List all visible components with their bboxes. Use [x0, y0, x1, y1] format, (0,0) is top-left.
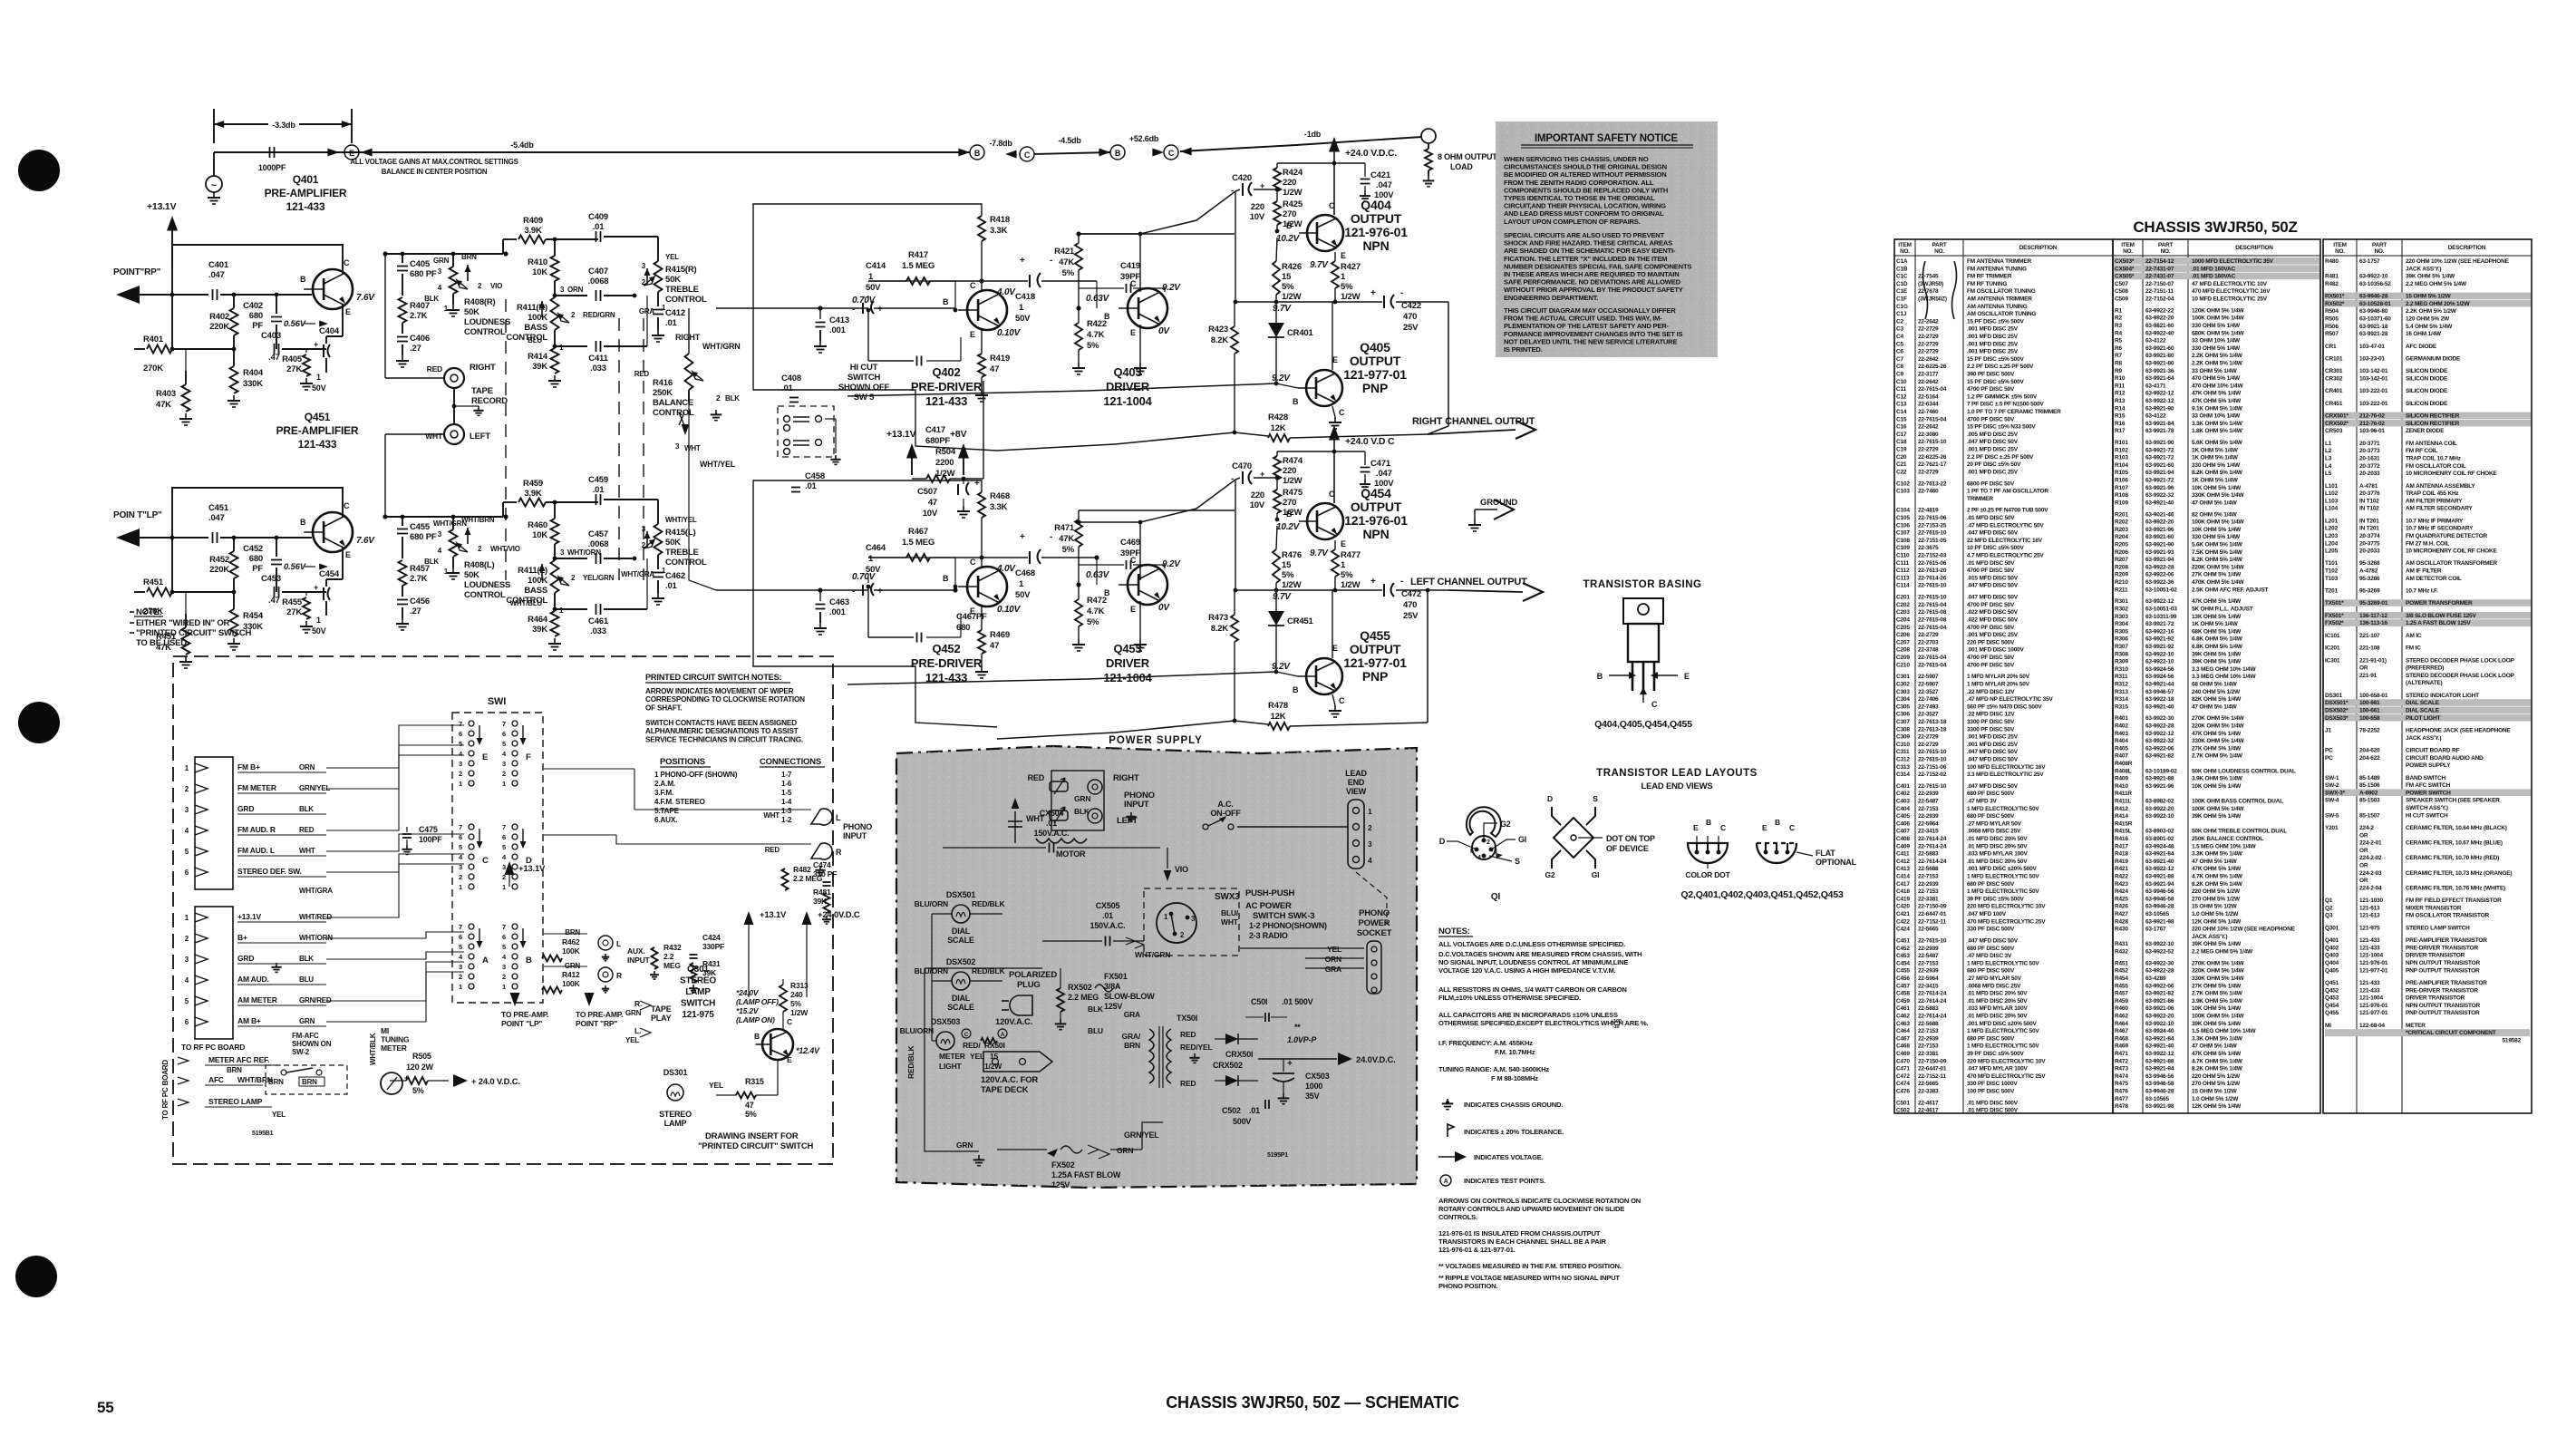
svg-text:C462: C462: [665, 571, 685, 581]
svg-text:Y201: Y201: [2325, 825, 2339, 831]
svg-text:C507: C507: [917, 487, 937, 497]
svg-text:8.2K OHM 5% 1/4W: 8.2K OHM 5% 1/4W: [2192, 557, 2243, 563]
svg-text:680 PF DISC 500V: 680 PF DISC 500V: [1967, 881, 2015, 888]
semicircle flat optional pkg: [1757, 843, 1796, 863]
svg-text:63-9921-94: 63-9921-94: [2145, 1066, 2174, 1072]
svg-text:63-9821-60: 63-9821-60: [2145, 323, 2174, 329]
svg-text:NOTE:: NOTE:: [136, 607, 162, 617]
svg-text:E: E: [345, 307, 351, 316]
svg-text:.01 MFD DISC 20% 50V: .01 MFD DISC 20% 50V: [1967, 1013, 2028, 1019]
svg-text:125V: 125V: [1104, 1002, 1122, 1011]
svg-text:1: 1: [502, 983, 506, 991]
svg-text:PART: PART: [2372, 242, 2387, 248]
svg-text:63-9922-06: 63-9922-06: [2145, 745, 2174, 752]
svg-text:Q405: Q405: [2325, 967, 2339, 974]
svg-text:.047: .047: [208, 513, 225, 523]
svg-text:1-5: 1-5: [781, 789, 792, 797]
svg-text:33 OHM 5% 1/4W: 33 OHM 5% 1/4W: [2192, 368, 2238, 374]
diode CR451: [1275, 590, 1277, 611]
svg-text:63-9921-44: 63-9921-44: [2145, 681, 2174, 687]
svg-text:R408R: R408R: [2115, 761, 2133, 767]
capacitor C4x2 680PF: [271, 559, 282, 561]
svg-text:R430: R430: [2115, 927, 2128, 933]
svg-text:R427: R427: [1341, 262, 1361, 272]
tape heads: [1050, 781, 1068, 791]
svg-text:FLAT: FLAT: [1816, 849, 1835, 858]
svg-text:22-2642: 22-2642: [1918, 424, 1939, 431]
svg-text:.47 MFD NP ELECTROLYTIC 35V: .47 MFD NP ELECTROLYTIC 35V: [1967, 696, 2054, 703]
svg-text:FX502: FX502: [1051, 1160, 1075, 1169]
svg-text:63-9922-10: 63-9922-10: [2145, 659, 2174, 665]
svg-text:ALL RESISTORS IN OHMS, 1/4 WAT: ALL RESISTORS IN OHMS, 1/4 WATT CARBON O…: [1438, 985, 1627, 994]
transistor Q405 PNP output: [1306, 370, 1342, 406]
svg-text:STEREO DECODER PHASE LOCK LOOP: STEREO DECODER PHASE LOCK LOOP: [2406, 657, 2515, 664]
svg-text:C8: C8: [1896, 364, 1903, 370]
svg-text:1.0VP-P: 1.0VP-P: [1287, 1035, 1317, 1044]
svg-text:4: 4: [1368, 856, 1372, 865]
svg-text:-3.3db: -3.3db: [272, 121, 295, 130]
svg-text:.0068: .0068: [588, 277, 609, 286]
svg-text:C15: C15: [1896, 416, 1907, 422]
svg-text:IC201: IC201: [2325, 645, 2340, 652]
svg-text:47K OHM 5% 1/4W: 47K OHM 5% 1/4W: [2192, 866, 2242, 872]
svg-text:63-9922-28: 63-9922-28: [2145, 968, 2174, 975]
svg-text:7: 7: [459, 923, 462, 931]
svg-text:4700 PF DISC 50V: 4700 PF DISC 50V: [1967, 602, 2015, 608]
svg-text:7 PF DISC ±.5 PF N1500 500V: 7 PF DISC ±.5 PF N1500 500V: [1967, 402, 2044, 408]
wire: PNP base feed: [847, 672, 1276, 684]
svg-text:R471: R471: [1054, 523, 1075, 533]
svg-text:.01: .01: [593, 222, 605, 232]
resistor R460 10K: [554, 502, 556, 519]
svg-text:C405: C405: [1896, 813, 1910, 820]
svg-text:JACK ASS'Y.): JACK ASS'Y.): [2406, 266, 2441, 272]
svg-text:220 PF DISC 500V: 220 PF DISC 500V: [1967, 639, 2015, 645]
svg-text:120K OHM 5% 1/4W: 120K OHM 5% 1/4W: [2192, 307, 2245, 314]
svg-text:22-7613-18: 22-7613-18: [1918, 726, 1947, 733]
transistor Q452 pre-driver: [967, 567, 1007, 607]
svg-text:Q404: Q404: [2325, 960, 2339, 966]
svg-text:-: -: [852, 305, 855, 315]
diamond package: [1554, 818, 1593, 858]
svg-text:100K OHM 5% 1/4W: 100K OHM 5% 1/4W: [2192, 806, 2245, 812]
svg-text:DESCRIPTION: DESCRIPTION: [2019, 245, 2058, 251]
svg-text:GI: GI: [1592, 870, 1600, 879]
svg-text:R4: R4: [2115, 330, 2122, 336]
svg-text:L: L: [616, 939, 621, 948]
svg-text:121-433: 121-433: [286, 200, 325, 213]
svg-text:COLOR DOT: COLOR DOT: [1685, 870, 1730, 879]
svg-text:63-9921-82: 63-9921-82: [2145, 753, 2174, 760]
svg-text:63-9921-18: 63-9921-18: [2359, 324, 2388, 330]
svg-text:TO RF PC BOARD: TO RF PC BOARD: [181, 1043, 245, 1052]
svg-text:22-3381: 22-3381: [1918, 896, 1939, 902]
svg-text:22-7153: 22-7153: [1918, 888, 1939, 895]
svg-text:SW-2: SW-2: [2325, 782, 2339, 789]
svg-text:95-3269: 95-3269: [2359, 588, 2380, 595]
svg-text:63-8982-02: 63-8982-02: [2145, 799, 2174, 805]
svg-text:.47 MFD DISC 3V: .47 MFD DISC 3V: [1967, 953, 2012, 959]
svg-text:680PF: 680PF: [925, 436, 950, 446]
wire: left rail down: [1235, 480, 1236, 590]
svg-text:C106: C106: [1896, 522, 1910, 529]
svg-text:INDICATES TEST POINTS.: INDICATES TEST POINTS.: [1464, 1177, 1545, 1185]
svg-text:5%: 5%: [1062, 545, 1075, 555]
svg-text:DSX501*: DSX501*: [2325, 700, 2348, 706]
svg-text:R476: R476: [1282, 550, 1302, 560]
svg-text:.0068 MFD DISC 25V: .0068 MFD DISC 25V: [1967, 983, 2021, 989]
svg-text:5%: 5%: [1282, 282, 1294, 292]
svg-text:12K OHM 5% 1/4W: 12K OHM 5% 1/4W: [2192, 1103, 2242, 1110]
svg-text:R305: R305: [2115, 628, 2128, 635]
svg-text:7: 7: [459, 720, 462, 728]
svg-text:1 MFD ELECTROLYTIC 50V: 1 MFD ELECTROLYTIC 50V: [1967, 1043, 2039, 1050]
svg-text:YEL/GRN: YEL/GRN: [583, 574, 615, 582]
gang dashed lines: [505, 299, 507, 580]
svg-text:B: B: [526, 956, 532, 966]
svg-text:103-96-01: 103-96-01: [2359, 428, 2385, 434]
svg-text:GRD: GRD: [237, 954, 254, 963]
capacitor C456 .27: [397, 599, 408, 601]
bottom wires: [925, 967, 1042, 969]
svg-text:C111: C111: [1896, 560, 1910, 567]
svg-text:22-7613-18: 22-7613-18: [1918, 719, 1947, 725]
svg-text:PF: PF: [252, 564, 263, 574]
svg-text:BRN: BRN: [565, 928, 580, 937]
svg-text:22-7615-04: 22-7615-04: [1918, 625, 1947, 631]
svg-text:BRN: BRN: [227, 1066, 242, 1074]
svg-text:B: B: [1293, 397, 1299, 406]
svg-text:4.7K OHM 5% 1/4W: 4.7K OHM 5% 1/4W: [2192, 874, 2243, 880]
svg-text:BLU: BLU: [528, 336, 542, 345]
svg-text:R421: R421: [2115, 866, 2128, 872]
svg-text:FM RF TRIMMER: FM RF TRIMMER: [1967, 274, 2012, 280]
svg-text:63-9921-64: 63-9921-64: [2145, 375, 2174, 382]
svg-text:63-10565: 63-10565: [2145, 1096, 2169, 1102]
svg-text:SWITCH: SWITCH: [681, 999, 715, 1009]
svg-text:C475: C475: [419, 825, 438, 834]
svg-text:4.0V: 4.0V: [996, 287, 1016, 297]
svg-text:C306: C306: [1896, 712, 1910, 718]
svg-text:IN T102: IN T102: [2359, 506, 2379, 512]
svg-text:63-9921-88: 63-9921-88: [2145, 776, 2174, 782]
svg-text:C207: C207: [1896, 639, 1910, 645]
svg-text:470 MFD ELECTROLYTIC 25V: 470 MFD ELECTROLYTIC 25V: [1967, 1073, 2046, 1080]
svg-text:R422: R422: [1087, 319, 1107, 329]
svg-text:MEG: MEG: [663, 961, 681, 970]
svg-text:R505: R505: [412, 1052, 431, 1061]
svg-text:PNP: PNP: [1362, 381, 1388, 395]
wire: collector to R418: [981, 281, 983, 291]
svg-text:7: 7: [502, 720, 506, 728]
svg-text:.033 MFD MYLAR 100V: .033 MFD MYLAR 100V: [1967, 851, 2029, 858]
svg-text:63-9921-60: 63-9921-60: [2145, 345, 2174, 352]
svg-text:R11: R11: [2115, 383, 2126, 389]
svg-text:L4: L4: [2325, 463, 2332, 470]
wire: tone top bus: [385, 516, 503, 518]
svg-text:RIGHT: RIGHT: [1113, 773, 1139, 783]
svg-text:(PREFERRED): (PREFERRED): [2406, 665, 2444, 672]
svg-text:27K: 27K: [286, 364, 302, 374]
svg-text:C457: C457: [588, 529, 608, 539]
svg-text:3.3K: 3.3K: [990, 226, 1008, 236]
svg-text:POWER TRANSFORMER: POWER TRANSFORMER: [2406, 600, 2473, 607]
24.0VDC out arrow: [1258, 1058, 1337, 1060]
svg-text:Q1: Q1: [2325, 898, 2333, 904]
svg-text:2-3 RADIO: 2-3 RADIO: [1249, 931, 1288, 940]
svg-text:POINT "LP": POINT "LP": [501, 1019, 542, 1028]
svg-text:C202: C202: [1896, 602, 1910, 608]
svg-text:DESCRIPTION: DESCRIPTION: [2235, 245, 2273, 251]
svg-text:TO RF PC BOARD: TO RF PC BOARD: [161, 1060, 169, 1120]
svg-text:.01: .01: [1046, 819, 1057, 828]
svg-text:C463: C463: [1896, 1021, 1910, 1027]
svg-text:-: -: [1050, 256, 1052, 266]
svg-text:C401: C401: [208, 260, 229, 270]
svg-text:DRIVER TRANSISTOR: DRIVER TRANSISTOR: [2406, 953, 2465, 959]
svg-text:20-3773: 20-3773: [2359, 448, 2380, 454]
resistor R4x5 27K: [305, 349, 307, 353]
svg-text:R17: R17: [2115, 428, 2126, 434]
svg-text:AC POWER: AC POWER: [1245, 901, 1292, 911]
capacitor C413 .001: [716, 307, 868, 309]
svg-text:TX50I: TX50I: [1177, 1014, 1197, 1023]
svg-text:INPUT: INPUT: [843, 831, 867, 840]
svg-text:C455: C455: [410, 522, 431, 532]
svg-text:1 MFD ELECTROLYTIC 50V: 1 MFD ELECTROLYTIC 50V: [1967, 888, 2039, 895]
svg-text:15: 15: [1282, 272, 1292, 282]
svg-text:22-6447-01: 22-6447-01: [1918, 1066, 1947, 1072]
svg-text:NO.: NO.: [2375, 248, 2385, 255]
svg-text:.01 MFD DISC 500V: .01 MFD DISC 500V: [1967, 1100, 2019, 1106]
svg-text:CR101: CR101: [2325, 355, 2343, 362]
svg-text:ARROWS ON CONTROLS INDICATE CL: ARROWS ON CONTROLS INDICATE CLOCKWISE RO…: [1438, 1197, 1641, 1205]
svg-text:MIXER TRANSISTOR: MIXER TRANSISTOR: [2406, 905, 2462, 911]
svg-text:7: 7: [459, 823, 462, 831]
svg-text:RED: RED: [765, 846, 780, 854]
svg-text:1/2W: 1/2W: [984, 1062, 1002, 1071]
svg-text:22-4819: 22-4819: [1918, 508, 1939, 514]
svg-text:39PF: 39PF: [1120, 272, 1140, 282]
svg-text:TUNING RANGE: A.M. 540-1600KH: TUNING RANGE: A.M. 540-1600KHz: [1438, 1065, 1549, 1073]
svg-text:"PRINTED CIRCUIT" SWITCH: "PRINTED CIRCUIT" SWITCH: [136, 628, 252, 638]
svg-text:GI: GI: [1518, 835, 1526, 844]
svg-text:WHT: WHT: [299, 847, 315, 855]
svg-text:BLK: BLK: [424, 295, 439, 303]
svg-text:R9: R9: [2115, 368, 2122, 374]
svg-text:CHASSIS 3WJR50, 50Z: CHASSIS 3WJR50, 50Z: [2133, 218, 2297, 236]
svg-text:C470: C470: [1232, 461, 1252, 471]
svg-text:136-117-12: 136-117-12: [2359, 613, 2387, 619]
svg-text:R506: R506: [2325, 324, 2339, 330]
svg-text:22-7153: 22-7153: [1918, 806, 1939, 812]
svg-text:3: 3: [459, 760, 462, 768]
svg-text:85-1503: 85-1503: [2359, 798, 2380, 804]
svg-text:.01 MFD 160VAC: .01 MFD 160VAC: [2192, 274, 2236, 280]
svg-text:8.2K OHM 5% 1/4W: 8.2K OHM 5% 1/4W: [2192, 1066, 2243, 1072]
svg-text:.27: .27: [410, 344, 421, 354]
svg-text:22-7152-03: 22-7152-03: [1918, 553, 1947, 559]
svg-text:ARROW INDICATES MOVEMENT OF WI: ARROW INDICATES MOVEMENT OF WIPER: [645, 687, 794, 695]
svg-text:204-622: 204-622: [2359, 755, 2380, 762]
svg-text:22-7150-07: 22-7150-07: [2145, 281, 2174, 287]
svg-text:10.7 MHz IF PRIMARY: 10.7 MHz IF PRIMARY: [2406, 518, 2464, 524]
svg-text:HI CUT: HI CUT: [850, 363, 878, 373]
svg-text:C105: C105: [1896, 515, 1910, 521]
svg-text:.022 MFD DISC 50V: .022 MFD DISC 50V: [1967, 609, 2019, 616]
svg-text:85-1489: 85-1489: [2359, 775, 2380, 781]
svg-text:OR: OR: [2359, 665, 2368, 672]
svg-text:PRE-DRIVER: PRE-DRIVER: [911, 380, 983, 393]
balance control R416 250K: [688, 308, 690, 326]
transistor Q454 NPN output: [1307, 503, 1343, 539]
svg-text:C454: C454: [319, 569, 340, 579]
svg-text:BLU/ORN: BLU/ORN: [900, 1026, 934, 1035]
svg-text:L201: L201: [2325, 518, 2339, 524]
svg-text:33 OHM 10% 1/4W: 33 OHM 10% 1/4W: [2192, 338, 2241, 345]
svg-text:4.7K OHM 5% 1/4W: 4.7K OHM 5% 1/4W: [2192, 1058, 2243, 1064]
svg-text:R401: R401: [143, 335, 164, 345]
svg-text:PRE-AMPLIFIER: PRE-AMPLIFIER: [265, 187, 347, 199]
svg-text:CHASSIS 3WJR50, 50Z — SCHEMATI: CHASSIS 3WJR50, 50Z — SCHEMATIC: [1166, 1393, 1459, 1412]
svg-text:9.1K OHM 5% 1/4W: 9.1K OHM 5% 1/4W: [2192, 405, 2243, 412]
svg-text:R307: R307: [2115, 644, 2128, 650]
svg-text:FM RF TUNING: FM RF TUNING: [1967, 281, 2007, 287]
svg-text:63-9921-80: 63-9921-80: [2145, 360, 2174, 366]
svg-text:270 OHM 5% 1/2W: 270 OHM 5% 1/2W: [2192, 1081, 2241, 1087]
svg-text:C456: C456: [1896, 975, 1910, 982]
svg-text:.001 MFD DISC 25V: .001 MFD DISC 25V: [1967, 326, 2019, 333]
capacitor C467PF 680PF: [960, 614, 962, 637]
svg-text:+: +: [314, 340, 318, 349]
svg-text:68 OHM 5% 1/4W: 68 OHM 5% 1/4W: [2192, 681, 2238, 687]
svg-text:330 PF DISC 1000V: 330 PF DISC 1000V: [1967, 1081, 2018, 1087]
svg-text:22-5883: 22-5883: [1918, 1005, 1939, 1012]
svg-text:63-9946-28: 63-9946-28: [2359, 294, 2388, 300]
svg-text:R421: R421: [1054, 247, 1075, 257]
svg-text:TRAP COIL 10.7 MHz: TRAP COIL 10.7 MHz: [2406, 455, 2462, 461]
svg-text:C: C: [1168, 149, 1175, 158]
svg-text:3.3K OHM 5% 1/4W: 3.3K OHM 5% 1/4W: [2192, 421, 2243, 427]
FM connector box: [195, 757, 233, 889]
svg-text:R405: R405: [2115, 745, 2128, 752]
svg-text:63-10565: 63-10565: [2145, 911, 2169, 917]
svg-text:22-3527: 22-3527: [1918, 712, 1939, 718]
capacitor C457 .0068: [553, 557, 557, 561]
svg-text:224-2: 224-2: [2359, 825, 2374, 831]
resistor R474 220 1/2W: [1273, 456, 1281, 480]
svg-text:22-7152-04: 22-7152-04: [2145, 296, 2174, 303]
svg-text:22-2729: 22-2729: [1918, 742, 1939, 748]
svg-text:R474: R474: [1283, 456, 1303, 466]
svg-text:WHT/GRN: WHT/GRN: [1135, 950, 1170, 959]
svg-text:120 2W: 120 2W: [406, 1063, 434, 1072]
svg-text:10V: 10V: [1250, 500, 1265, 510]
svg-text:63-9946-58: 63-9946-58: [2145, 896, 2174, 902]
svg-text:BRN: BRN: [302, 1078, 317, 1086]
svg-text:22-7621-17: 22-7621-17: [1918, 461, 1947, 468]
svg-text:15 OHM 5% 1/2W: 15 OHM 5% 1/2W: [2192, 1088, 2238, 1094]
svg-text:22-7615-10: 22-7615-10: [1918, 783, 1947, 790]
svg-text:5%: 5%: [745, 1110, 757, 1119]
svg-text:63-9921-06: 63-9921-06: [2145, 1005, 2174, 1012]
svg-text:1/2W: 1/2W: [1283, 188, 1303, 198]
svg-text:YEL: YEL: [272, 1111, 286, 1119]
svg-text:CR301: CR301: [2325, 368, 2343, 374]
svg-text:4.7K: 4.7K: [1087, 607, 1105, 616]
svg-text:.0068 MFD DISC 25V: .0068 MFD DISC 25V: [1967, 829, 2021, 835]
svg-text:NO.: NO.: [2161, 248, 2171, 255]
svg-text:C209: C209: [1896, 655, 1910, 661]
svg-text:SWITCH: SWITCH: [847, 373, 881, 383]
svg-text:C107: C107: [1896, 530, 1910, 537]
svg-text:R402: R402: [209, 312, 229, 322]
svg-text:R304: R304: [2115, 621, 2128, 627]
svg-text:22-5907: 22-5907: [1918, 681, 1939, 687]
svg-text:POINT"RP": POINT"RP": [113, 267, 161, 277]
svg-text:C422: C422: [1896, 918, 1910, 925]
svg-text:10.2V: 10.2V: [1276, 234, 1301, 244]
svg-text:1: 1: [459, 983, 462, 991]
svg-text:22-2729: 22-2729: [1918, 326, 1939, 333]
svg-text:3.9K OHM 5% 1/4W: 3.9K OHM 5% 1/4W: [2192, 776, 2243, 782]
svg-text:22-3415: 22-3415: [1918, 829, 1939, 835]
svg-text:25V: 25V: [1403, 611, 1419, 621]
svg-text:WHT/ORN: WHT/ORN: [567, 548, 601, 557]
svg-text:.047: .047: [208, 270, 225, 280]
svg-text:C421: C421: [1896, 911, 1910, 917]
svg-text:-: -: [1400, 577, 1403, 587]
svg-text:39PF: 39PF: [1120, 548, 1140, 558]
svg-text:6: 6: [502, 833, 506, 841]
svg-text:C463: C463: [829, 597, 849, 607]
svg-text:RED: RED: [427, 364, 442, 374]
svg-text:TRIMMER: TRIMMER: [1967, 496, 1993, 502]
svg-text:C474: C474: [1896, 1081, 1910, 1087]
svg-text:CRX502*: CRX502*: [2325, 421, 2348, 427]
svg-text:R203: R203: [2115, 527, 2128, 533]
svg-text:22-6344: 22-6344: [1918, 402, 1939, 408]
svg-text:3.F.M.: 3.F.M.: [654, 789, 673, 797]
svg-text:63-9922-10: 63-9922-10: [2145, 651, 2174, 657]
capacitor C455 680PF: [402, 517, 403, 526]
svg-text:(3WJR50Z): (3WJR50Z): [1918, 296, 1947, 303]
svg-text:Q454: Q454: [2325, 1003, 2339, 1009]
svg-text:R419: R419: [990, 354, 1010, 364]
svg-text:C413: C413: [1896, 866, 1910, 872]
registration dot top-left: [18, 150, 60, 191]
svg-text:63-9921-92: 63-9921-92: [2145, 644, 2174, 650]
svg-text:C411: C411: [588, 354, 608, 364]
svg-text:E: E: [1341, 251, 1346, 260]
svg-text:POINT "RP": POINT "RP": [576, 1019, 617, 1028]
svg-text:22-7153: 22-7153: [1918, 960, 1939, 966]
svg-text:JACK ASS'Y.): JACK ASS'Y.): [2406, 735, 2441, 742]
svg-text:L: L: [836, 813, 841, 822]
svg-text:.001 MFD DISC 25V: .001 MFD DISC 25V: [1967, 632, 2019, 638]
svg-text:100PF: 100PF: [419, 835, 442, 844]
svg-text:4700 PF DISC 50V: 4700 PF DISC 50V: [1967, 655, 2015, 661]
svg-text:63-9921-60: 63-9921-60: [2145, 462, 2174, 469]
svg-text:R: R: [836, 848, 842, 857]
svg-text:4700 PF DISC 50V: 4700 PF DISC 50V: [1967, 568, 2015, 574]
svg-text:ALL VOLTAGE GAINS AT MAX.CONTR: ALL VOLTAGE GAINS AT MAX.CONTROL SETTING…: [350, 158, 518, 166]
svg-text:C418: C418: [1896, 888, 1910, 895]
svg-text:22-7614-24: 22-7614-24: [1918, 836, 1947, 842]
wire: output run: [1233, 431, 1237, 435]
svg-text:C: C: [1720, 823, 1726, 832]
svg-text:47: 47: [990, 641, 999, 651]
